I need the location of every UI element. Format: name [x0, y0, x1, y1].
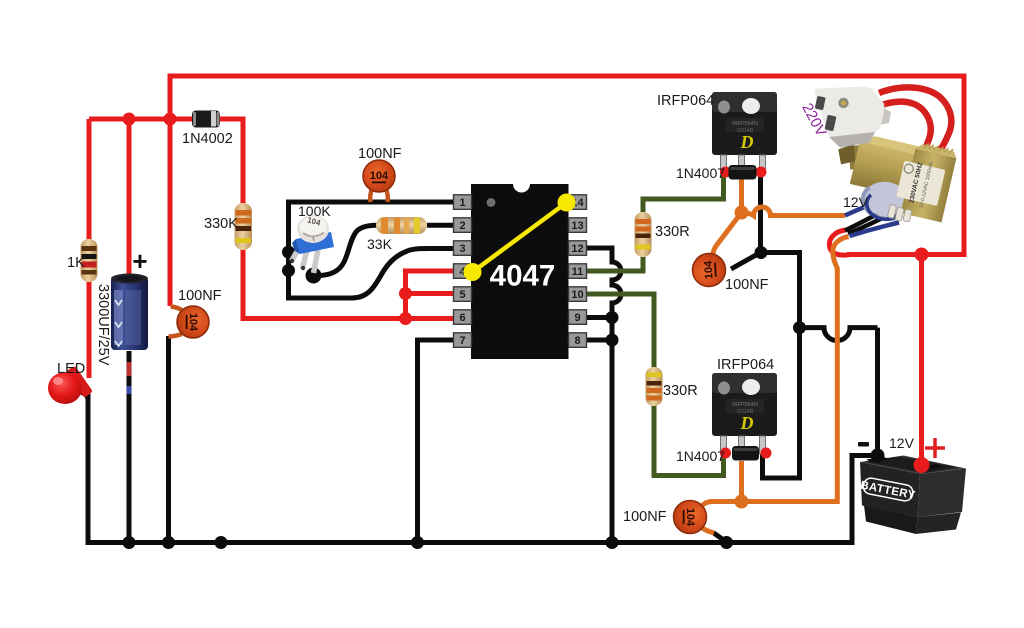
- svg-text:11: 11: [572, 266, 584, 278]
- svg-text:100NF: 100NF: [358, 146, 402, 162]
- svg-text:1N4007: 1N4007: [676, 165, 725, 181]
- svg-text:330R: 330R: [655, 224, 690, 240]
- svg-text:9: 9: [574, 312, 580, 324]
- svg-text:D: D: [740, 413, 754, 433]
- svg-text:LED: LED: [57, 361, 85, 377]
- svg-text:7: 7: [459, 335, 465, 347]
- svg-text:1N4007: 1N4007: [676, 448, 725, 464]
- svg-text:IRFP064: IRFP064: [717, 357, 774, 373]
- svg-text:1: 1: [459, 197, 465, 209]
- svg-text:D: D: [740, 132, 754, 152]
- svg-text:IRFP064N: IRFP064N: [732, 121, 758, 127]
- svg-text:1K: 1K: [67, 255, 85, 271]
- svg-text:+: +: [132, 246, 147, 276]
- svg-text:12V: 12V: [843, 194, 869, 210]
- svg-text:100NF: 100NF: [623, 509, 667, 525]
- svg-text:10: 10: [571, 289, 583, 301]
- svg-text:12: 12: [571, 243, 583, 255]
- svg-text:8: 8: [574, 335, 580, 347]
- svg-text:104: 104: [370, 170, 389, 182]
- svg-text:1N4002: 1N4002: [182, 131, 233, 147]
- svg-text:104: 104: [684, 508, 696, 527]
- svg-text:IRFP064N: IRFP064N: [732, 402, 758, 408]
- svg-text:4047: 4047: [490, 260, 556, 293]
- svg-text:6: 6: [459, 312, 465, 324]
- svg-text:104: 104: [187, 313, 199, 332]
- svg-text:330R: 330R: [663, 383, 698, 399]
- svg-text:IRFP064: IRFP064: [657, 93, 714, 109]
- svg-text:100NF: 100NF: [725, 277, 769, 293]
- svg-text:5: 5: [459, 289, 465, 301]
- svg-text:33K: 33K: [367, 236, 393, 252]
- svg-text:100NF: 100NF: [178, 288, 222, 304]
- svg-text:3: 3: [459, 243, 465, 255]
- svg-text:100K: 100K: [298, 203, 331, 219]
- svg-text:3300UF/25V: 3300UF/25V: [95, 284, 111, 366]
- svg-text:104: 104: [702, 260, 715, 280]
- svg-text:13: 13: [571, 220, 583, 232]
- svg-text:2: 2: [459, 220, 465, 232]
- svg-text:12V: 12V: [889, 435, 915, 451]
- svg-text:330K: 330K: [204, 216, 238, 232]
